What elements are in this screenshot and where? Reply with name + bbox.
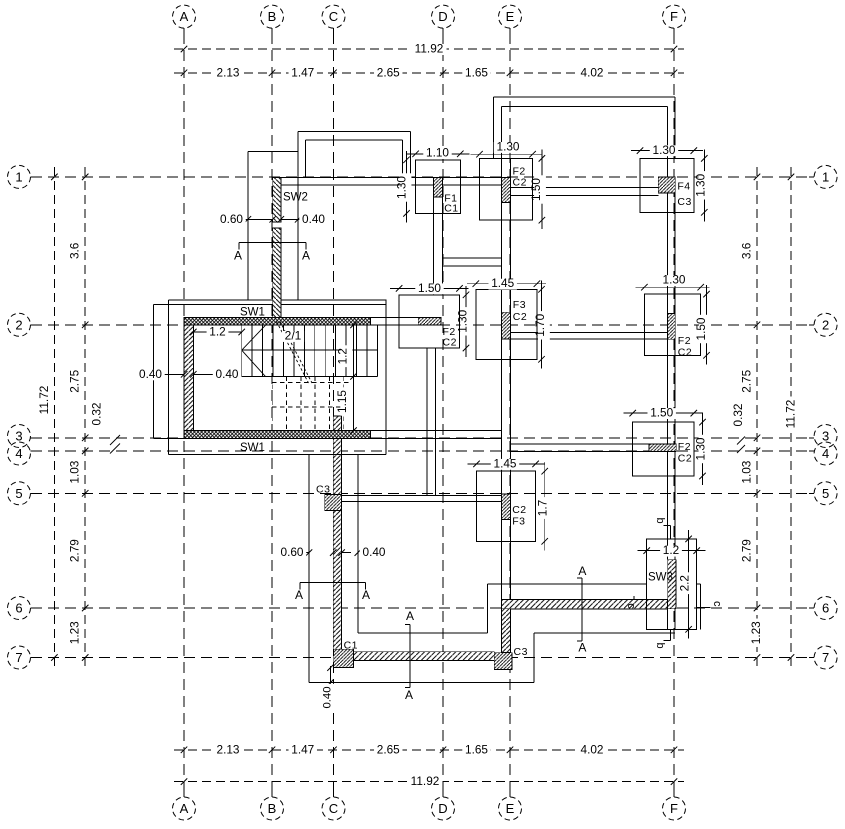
svg-text:1: 1 — [822, 170, 829, 185]
svg-text:11.72: 11.72 — [37, 386, 51, 415]
svg-text:7: 7 — [822, 650, 829, 665]
svg-text:1.45: 1.45 — [491, 276, 514, 290]
svg-text:0.40: 0.40 — [139, 367, 162, 381]
svg-text:2/1: 2/1 — [285, 329, 302, 343]
svg-text:1.50: 1.50 — [418, 281, 441, 295]
svg-text:C2: C2 — [512, 504, 526, 516]
svg-text:A: A — [578, 641, 586, 655]
svg-text:3: 3 — [822, 429, 829, 444]
svg-text:A: A — [362, 588, 370, 602]
svg-text:2.2: 2.2 — [677, 575, 691, 591]
svg-text:1.30: 1.30 — [663, 273, 686, 287]
svg-text:11.92: 11.92 — [411, 774, 440, 788]
svg-text:C2: C2 — [678, 452, 692, 464]
svg-text:1.50: 1.50 — [694, 317, 708, 340]
svg-text:1.30: 1.30 — [456, 309, 470, 332]
svg-text:c: c — [711, 601, 723, 607]
svg-text:0.32: 0.32 — [90, 403, 104, 426]
svg-text:1.50: 1.50 — [529, 178, 543, 201]
svg-text:1.30: 1.30 — [694, 437, 708, 460]
svg-text:1.10: 1.10 — [426, 146, 449, 160]
svg-text:D: D — [438, 9, 447, 24]
svg-text:1.30: 1.30 — [497, 140, 520, 154]
svg-text:A: A — [180, 801, 189, 816]
svg-text:C1: C1 — [444, 203, 458, 215]
svg-text:b: b — [654, 517, 666, 523]
svg-text:1.2: 1.2 — [209, 325, 225, 339]
svg-text:2.13: 2.13 — [217, 742, 240, 756]
svg-text:0.40: 0.40 — [363, 545, 386, 559]
svg-text:SW3: SW3 — [648, 572, 673, 584]
svg-text:2.79: 2.79 — [739, 539, 753, 562]
svg-text:1.15: 1.15 — [335, 390, 349, 413]
svg-text:1.45: 1.45 — [494, 456, 517, 470]
svg-text:A: A — [180, 9, 189, 24]
svg-text:C: C — [329, 9, 338, 24]
svg-text:4.02: 4.02 — [581, 65, 604, 79]
svg-text:1.70: 1.70 — [533, 313, 547, 336]
svg-text:2: 2 — [822, 317, 829, 332]
svg-text:1.23: 1.23 — [68, 621, 82, 644]
svg-text:F3: F3 — [512, 516, 525, 528]
svg-text:5: 5 — [15, 486, 22, 501]
svg-text:C: C — [329, 801, 338, 816]
svg-text:1.47: 1.47 — [291, 65, 314, 79]
svg-text:1.03: 1.03 — [739, 460, 753, 483]
svg-text:F: F — [670, 9, 678, 24]
svg-text:11.92: 11.92 — [415, 42, 444, 56]
svg-text:F3: F3 — [513, 299, 526, 311]
svg-text:C3: C3 — [677, 196, 691, 208]
svg-text:1.7: 1.7 — [535, 500, 549, 516]
svg-text:A: A — [578, 564, 586, 578]
svg-text:3: 3 — [15, 429, 22, 444]
svg-text:1.65: 1.65 — [465, 65, 488, 79]
svg-text:2.79: 2.79 — [68, 539, 82, 562]
svg-text:2.13: 2.13 — [217, 65, 240, 79]
svg-text:2: 2 — [15, 317, 22, 332]
svg-text:1.50: 1.50 — [650, 406, 673, 420]
svg-text:C3: C3 — [514, 646, 528, 658]
svg-text:B: B — [268, 801, 277, 816]
svg-text:0.40: 0.40 — [302, 212, 325, 226]
svg-text:1.03: 1.03 — [68, 460, 82, 483]
svg-text:2.75: 2.75 — [68, 369, 82, 392]
svg-text:0.60: 0.60 — [220, 212, 243, 226]
svg-text:SW1: SW1 — [240, 306, 265, 318]
svg-text:A: A — [295, 588, 303, 602]
svg-text:0.32: 0.32 — [731, 404, 745, 427]
svg-text:2.75: 2.75 — [739, 369, 753, 392]
svg-text:A: A — [405, 688, 413, 702]
svg-text:1.30: 1.30 — [693, 173, 707, 196]
svg-text:2.65: 2.65 — [377, 742, 400, 756]
svg-text:E: E — [506, 801, 515, 816]
svg-text:B: B — [268, 9, 277, 24]
svg-text:2.65: 2.65 — [377, 65, 400, 79]
svg-text:A: A — [406, 609, 414, 623]
svg-text:A: A — [302, 249, 310, 263]
svg-text:1.30: 1.30 — [653, 143, 676, 157]
svg-text:1: 1 — [15, 170, 22, 185]
svg-text:3.6: 3.6 — [68, 242, 82, 259]
svg-text:1.2: 1.2 — [663, 543, 679, 557]
svg-text:0.40: 0.40 — [322, 687, 334, 709]
svg-text:F2: F2 — [678, 335, 691, 347]
svg-text:6: 6 — [822, 601, 829, 616]
svg-text:E: E — [506, 9, 515, 24]
svg-text:6: 6 — [15, 601, 22, 616]
svg-text:7: 7 — [15, 650, 22, 665]
svg-text:C2: C2 — [513, 177, 527, 189]
svg-text:1.23: 1.23 — [749, 621, 763, 644]
svg-text:C2: C2 — [513, 311, 527, 323]
svg-text:1.65: 1.65 — [465, 742, 488, 756]
svg-text:c: c — [625, 603, 637, 609]
svg-text:5: 5 — [822, 486, 829, 501]
svg-text:1.47: 1.47 — [291, 742, 314, 756]
svg-text:1.30: 1.30 — [395, 176, 409, 199]
svg-text:1.2: 1.2 — [336, 348, 350, 364]
svg-text:3.6: 3.6 — [739, 242, 753, 259]
svg-text:C2: C2 — [443, 337, 457, 349]
svg-text:b: b — [654, 642, 666, 648]
svg-text:F4: F4 — [677, 180, 690, 192]
svg-text:4: 4 — [15, 446, 22, 461]
svg-text:D: D — [438, 801, 447, 816]
svg-text:0.40: 0.40 — [216, 367, 239, 381]
svg-text:C1: C1 — [344, 640, 358, 652]
svg-text:SW1: SW1 — [240, 442, 265, 454]
svg-text:4: 4 — [822, 446, 829, 461]
svg-text:11.72: 11.72 — [784, 400, 798, 429]
svg-text:A: A — [234, 249, 242, 263]
svg-text:F: F — [670, 801, 678, 816]
svg-text:4.02: 4.02 — [581, 742, 604, 756]
svg-text:0.60: 0.60 — [281, 545, 304, 559]
svg-text:C3: C3 — [316, 484, 330, 496]
svg-text:C2: C2 — [678, 347, 692, 359]
svg-text:SW2: SW2 — [283, 191, 308, 203]
